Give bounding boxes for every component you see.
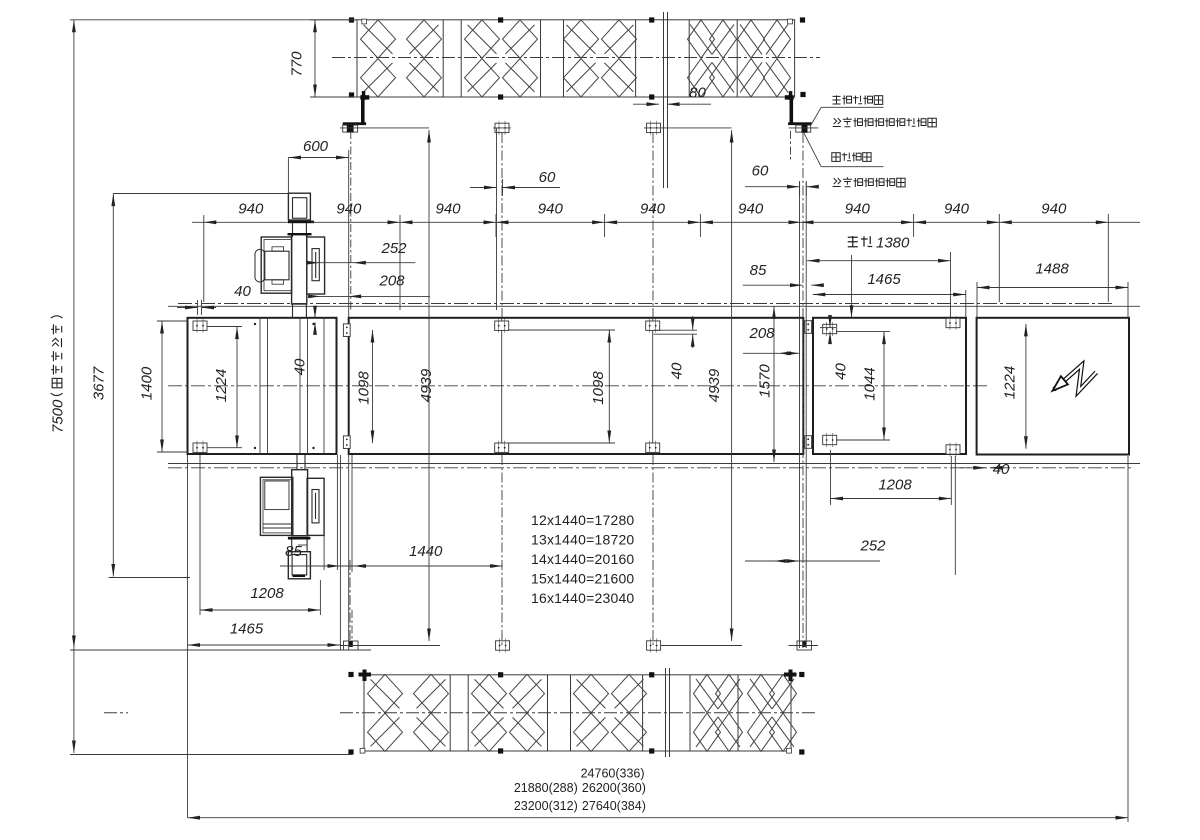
svg-text:12x1440=17280: 12x1440=17280	[531, 512, 634, 528]
svg-text:1098: 1098	[590, 371, 607, 405]
svg-text:1208: 1208	[878, 476, 912, 493]
svg-text:24760(336): 24760(336)	[581, 767, 645, 781]
svg-text:1224: 1224	[213, 369, 230, 402]
svg-text:3677: 3677	[90, 366, 107, 400]
svg-text:1570: 1570	[756, 364, 773, 398]
svg-text:85: 85	[285, 543, 302, 560]
svg-text:940: 940	[1041, 200, 1067, 217]
svg-text:940: 940	[238, 200, 264, 217]
svg-text:85: 85	[750, 262, 767, 279]
svg-text:16x1440=23040: 16x1440=23040	[531, 590, 634, 606]
svg-text:40: 40	[668, 362, 685, 379]
svg-text:1098: 1098	[355, 371, 372, 405]
svg-text:21880(288): 21880(288)	[514, 781, 578, 795]
svg-text:252: 252	[859, 537, 886, 554]
svg-text:4939: 4939	[418, 368, 435, 402]
svg-text:940: 940	[944, 200, 970, 217]
svg-text:208: 208	[748, 325, 775, 342]
svg-text:40: 40	[993, 461, 1010, 478]
svg-text:252: 252	[380, 240, 407, 257]
svg-text:940: 940	[336, 200, 362, 217]
svg-text:940: 940	[538, 200, 564, 217]
svg-text:940: 940	[640, 200, 666, 217]
svg-text:13x1440=18720: 13x1440=18720	[531, 531, 634, 547]
svg-text:940: 940	[738, 200, 764, 217]
svg-text:1440: 1440	[409, 543, 443, 560]
svg-text:1488: 1488	[1035, 260, 1069, 277]
svg-text:1465: 1465	[230, 620, 264, 637]
svg-text:7500: 7500	[50, 399, 67, 433]
svg-text:940: 940	[845, 200, 871, 217]
svg-text:600: 600	[303, 138, 329, 155]
svg-text:1208: 1208	[250, 585, 284, 602]
svg-text:80: 80	[689, 84, 706, 101]
svg-text:770: 770	[288, 51, 305, 77]
svg-text:60: 60	[752, 162, 769, 179]
svg-text:23200(312): 23200(312)	[514, 799, 578, 813]
svg-text:1224: 1224	[1001, 366, 1018, 399]
svg-text:1400: 1400	[138, 366, 155, 400]
svg-text:40: 40	[291, 358, 308, 375]
svg-text:40: 40	[234, 283, 251, 300]
svg-text:1465: 1465	[867, 271, 901, 288]
svg-text:40: 40	[832, 363, 849, 380]
svg-text:208: 208	[378, 272, 405, 289]
svg-text:14x1440=20160: 14x1440=20160	[531, 551, 634, 567]
svg-text:27640(384): 27640(384)	[582, 799, 646, 813]
svg-text:4939: 4939	[706, 368, 723, 402]
svg-text:26200(360): 26200(360)	[582, 781, 646, 795]
svg-text:1380: 1380	[876, 234, 910, 251]
svg-text:940: 940	[435, 200, 461, 217]
svg-text:60: 60	[539, 169, 556, 186]
svg-text:1044: 1044	[861, 367, 878, 400]
svg-text:15x1440=21600: 15x1440=21600	[531, 570, 634, 586]
